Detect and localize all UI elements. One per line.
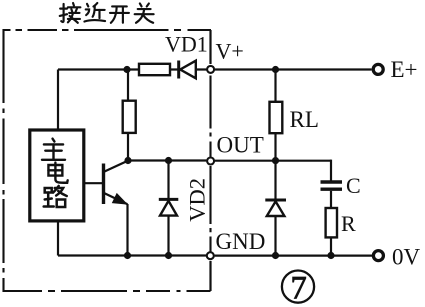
capacitor C — [321, 182, 343, 189]
enclosure dash-dot border top — [4, 29, 212, 31]
label RL — [290, 107, 319, 132]
terminal E+ — [373, 64, 383, 74]
resistor RL — [270, 70, 283, 161]
node collector junction — [124, 157, 131, 164]
node VD2 top junction — [165, 157, 172, 164]
wire OUT corner down into C — [330, 160, 332, 181]
wire right border top solid segment to V+ — [209, 30, 211, 64]
label V+ — [216, 39, 244, 64]
node R bottom junction — [327, 252, 334, 259]
node emitter junction on GND rail — [124, 252, 131, 259]
wire GND to 0V — [215, 255, 372, 257]
diode (output clamp, right) — [265, 161, 286, 256]
wire OUT to C branch — [215, 160, 331, 162]
label 接近开关 proximity switch title — [60, 3, 154, 23]
label VD1 — [165, 32, 208, 57]
wire left riser from top rail down to main circuit box — [57, 70, 59, 132]
node VD2 bottom junction — [165, 252, 172, 259]
resistor (collector load) — [123, 70, 136, 161]
label E+ — [391, 57, 418, 82]
svg-text:0V: 0V — [392, 244, 421, 269]
svg-text:VD1: VD1 — [165, 32, 208, 57]
main circuit block 主电路 — [30, 130, 84, 221]
enclosure dash-dot border right segment between OUT and GND — [209, 166, 211, 252]
enclosure dash-dot border right segment between V+ and OUT — [209, 76, 211, 158]
enclosure dash-dot border bottom — [4, 290, 211, 292]
resistor (series with VD1) — [139, 64, 170, 75]
label 0V — [392, 244, 421, 269]
label C — [346, 173, 361, 198]
svg-text:E+: E+ — [391, 57, 418, 82]
enclosure dash-dot border left — [2, 29, 4, 292]
label OUT — [217, 132, 264, 157]
terminal OUT — [207, 158, 214, 165]
wire V+ to E+ — [215, 68, 372, 70]
svg-text:R: R — [341, 211, 356, 236]
svg-text:VD2: VD2 — [185, 178, 210, 222]
terminal V+ — [207, 66, 214, 73]
transistor Q1 — [84, 161, 128, 205]
diode VD2 — [159, 161, 179, 256]
svg-text:GND: GND — [216, 229, 266, 254]
node junction on top rail — [123, 66, 130, 73]
wire main circuit box bottom to GND rail — [57, 221, 59, 256]
wire C to R — [330, 191, 332, 208]
label R — [341, 211, 356, 236]
resistor R — [326, 208, 337, 237]
wire R to GND rail — [330, 237, 332, 255]
svg-text:V+: V+ — [216, 39, 244, 64]
terminal GND — [207, 252, 214, 259]
svg-text:7: 7 — [291, 270, 307, 306]
node diode bottom junction — [272, 252, 279, 259]
wire emitter down to GND rail — [126, 204, 128, 256]
node junction RL top — [272, 66, 279, 73]
wire right border bottom solid segment from GND — [209, 261, 211, 291]
wire OUT line — [128, 159, 206, 161]
svg-text:C: C — [346, 173, 361, 198]
svg-text:RL: RL — [290, 107, 319, 132]
node RL bottom junction on OUT line — [272, 157, 279, 164]
label GND — [216, 229, 266, 254]
terminal 0V — [373, 251, 383, 261]
wire top rail from main circuit to V+ — [58, 68, 207, 70]
diode VD1 — [179, 61, 196, 79]
label VD2 — [185, 178, 210, 222]
wire GND rail — [58, 254, 206, 256]
svg-text:OUT: OUT — [217, 132, 264, 157]
figure number 7 circled — [282, 270, 314, 306]
